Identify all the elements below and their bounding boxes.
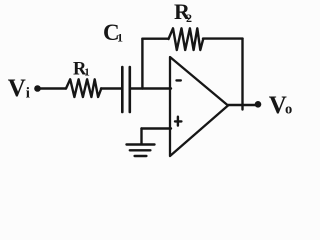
svg-text:1: 1 xyxy=(117,30,123,44)
label R2 xyxy=(174,0,192,25)
label Vo xyxy=(269,92,292,119)
label R1 xyxy=(73,59,90,79)
svg-text:V: V xyxy=(8,75,26,102)
op-amp non-inverting pin plus sign xyxy=(175,117,181,126)
wire C1 to op-amp inverting input xyxy=(131,87,172,89)
svg-text:2: 2 xyxy=(186,11,192,25)
wire feedback right vertical down to output xyxy=(241,39,243,110)
resistor R1 xyxy=(66,79,101,97)
ground xyxy=(127,145,155,157)
resistor R2 xyxy=(169,28,204,50)
label C1 xyxy=(103,20,123,45)
capacitor C1 xyxy=(122,67,130,112)
op-amp U1 xyxy=(170,57,228,156)
wire ground drop xyxy=(140,129,142,144)
svg-text:1: 1 xyxy=(84,66,90,78)
op-amp inverting pin minus sign xyxy=(177,79,181,81)
label Vi xyxy=(8,75,30,102)
wire feedback top right segment xyxy=(203,37,243,39)
wire non-inverting input to ground branch xyxy=(142,127,172,129)
wire feedback left vertical from node to top xyxy=(141,39,143,89)
svg-text:o: o xyxy=(285,101,292,117)
svg-text:i: i xyxy=(26,85,30,101)
wire op-amp output xyxy=(228,104,256,106)
node Vi input dot xyxy=(34,85,41,92)
node Vo output dot xyxy=(255,101,262,108)
wire Vi to R1 xyxy=(41,87,67,89)
wire feedback top left segment xyxy=(142,38,168,40)
wire R1 to C1 xyxy=(101,87,122,89)
